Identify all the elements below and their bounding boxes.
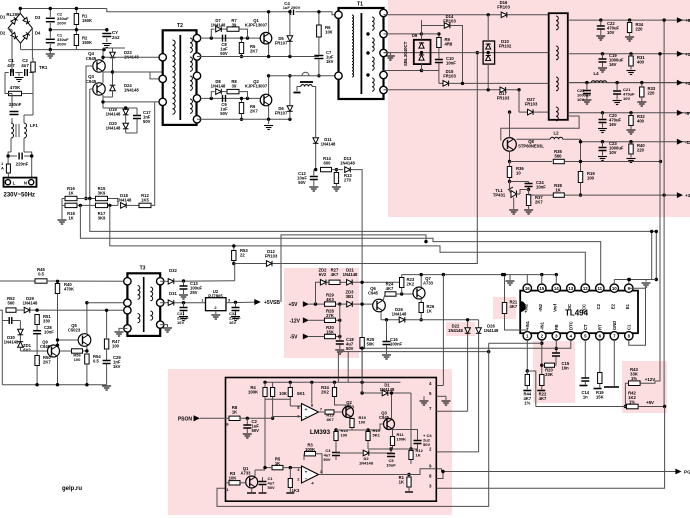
junction dots input [19,7,22,10]
resistor R50 2K7 [35,356,39,366]
wire mains top rail [20,8,107,10]
svg-text:−: − [305,414,308,419]
wire choke out row2 +12V [568,53,690,55]
svg-text:−: − [305,477,308,482]
svg-text:D32: D32 [169,268,177,273]
wire secondary row1 [384,14,549,16]
wire standby bottom rail [2,384,106,386]
diode D19 1N4148 [123,109,129,115]
wire Q3 collector up [391,393,393,419]
output choke block [549,13,568,120]
thermistor TR1 [32,58,34,62]
wire Q6 emitter row [380,312,382,320]
wire pin3 to +5V rail [436,407,664,488]
svg-text:A: A [1,166,4,171]
svg-text:+3.3: +3.3 [685,193,690,198]
svg-text:OC: OC [567,304,572,310]
svg-text:C1: C1 [626,324,631,330]
svg-text:PSON: PSON [178,416,193,422]
diode D4 bridge [23,32,30,39]
svg-text:R224K7: R224K7 [539,392,547,402]
svg-text:11: 11 [597,286,602,291]
T2 secondary windings [190,38,192,52]
capacitor CY 2n2 [106,30,108,32]
svg-text:L: L [13,180,16,185]
wire Q2 emitter rail [268,106,270,120]
AC inlet terminals L N [4,178,37,187]
svg-text:GND: GND [612,321,617,330]
rectifier D10 FR102 [483,41,495,64]
svg-text:ZD33B1: ZD33B1 [346,290,355,300]
resistor R37 2K7 [526,195,530,206]
diode D24 1N4148 [110,85,116,91]
highlight region -5V/-12V network [284,268,359,358]
wire pin1 bottom loop [217,343,489,506]
wire pin1 down [526,340,528,371]
input arrow -12V [303,317,309,323]
wire secondary row4 [384,70,422,72]
svg-text:R51K: R51K [275,457,281,467]
ground between X caps [18,73,20,77]
svg-text:R35560: R35560 [554,149,562,159]
svg-text:-5V: -5V [290,335,298,341]
svg-text:+3.3V: +3.3V [685,81,690,86]
diode D1 bridge [11,17,18,24]
T1 primary winding [352,15,354,77]
svg-text:+12V: +12V [685,52,690,57]
ground T3 right bottom [160,325,167,327]
wire divider rows [77,198,96,200]
capacitor 330nF [11,94,13,109]
svg-text:R214K7: R214K7 [510,300,518,310]
capacitor C9 1uF 50V [223,95,226,102]
input arrow -5V [303,334,309,340]
svg-text:13: 13 [568,286,573,291]
T1 secondary windings [372,17,374,30]
wire Q8 source [509,151,511,161]
box second rail [265,398,290,400]
ground pin5 pair [423,396,425,400]
diode D20 1N4148 [123,123,129,129]
wire comp A output [319,411,325,413]
svg-text:R14600: R14600 [323,156,331,166]
wire Q4 base down [86,66,93,199]
wire LF1 to inlet [10,138,12,152]
svg-text:+5V: +5V [685,18,690,23]
input arrow +5V [303,301,309,307]
subcircuit box LM393 [226,378,437,502]
svg-text:R2550K: R2550K [367,337,375,347]
capacitor C4 1uF 250V [291,10,294,16]
svg-text:T3: T3 [140,266,146,272]
svg-text:D31: D31 [169,291,177,296]
wire pin4 DTC line [362,340,571,348]
current transformer secondary [301,85,312,87]
capacitor 220nF [19,153,22,160]
resistor R33 220 [640,81,643,84]
resistor R36 10 [507,167,511,178]
svg-text:R274K7: R274K7 [331,268,339,278]
wire standby aux rail riser [234,264,236,281]
capacitor C10 10nF [438,48,440,60]
svg-text:R244K7: R244K7 [386,282,394,292]
svg-text:VCC: VCC [581,304,586,313]
svg-text:FB: FB [554,324,559,330]
svg-text:E1: E1 [625,303,630,309]
resistor R31 400 [629,52,632,55]
wire comp A inputs [290,405,301,407]
svg-text:+5V: +5V [646,400,654,405]
output arrow +3.3VS [677,192,683,198]
capacitor C32 220uF 16V [234,301,237,304]
svg-text:Vref: Vref [552,303,557,312]
svg-text:5K1: 5K1 [297,391,305,396]
resistor R9 4R8 [437,38,441,48]
ground T3 left bottom [119,328,127,331]
svg-text:R155K1: R155K1 [373,428,381,437]
svg-text:R294K3: R294K3 [326,293,334,303]
svg-text:C171nF50V: C171nF50V [143,110,151,124]
svg-text:R372K7: R372K7 [535,195,543,205]
IC TL494 body [520,291,638,334]
wire base drive bottom [103,107,137,109]
wire PG output [436,469,441,472]
right rail +5V vertical [663,20,665,406]
capacitor C23 1000uF 10V [601,140,604,143]
right rail +12V vertical [659,54,661,381]
output arrow -12V [677,139,683,145]
resistor R7 39 [227,27,239,31]
wire choke out row3 +3.3V [568,82,690,84]
svg-text:+5V: +5V [288,302,298,308]
bus B3 [110,205,586,284]
ground pin7 GND [613,340,615,386]
wire Q1 emitter rail [268,44,270,57]
box top rail [265,381,401,383]
wire R21 to pin1 [505,314,528,332]
filter inductor LF1 [11,123,14,138]
fuse F1 [6,164,10,173]
wire comp B out to pins [341,469,436,475]
diode D2 bridge [11,32,18,39]
svg-text:230V~50Hz: 230V~50Hz [4,192,36,198]
ground rail stub TL494 left [509,275,511,280]
svg-text:T2: T2 [177,23,183,29]
resistor R18 1K [65,203,77,207]
wire pins 15 16 to rail [526,275,528,284]
wire choke to Q8 gate [501,116,579,141]
resistor R6 2K7 [239,103,243,114]
wire B1 to E bracket [651,231,653,279]
svg-text:gelp.ru: gelp.ru [62,486,82,492]
capacitor C14 1n [584,340,586,378]
wires inside box top [264,382,266,387]
wire Q5 base [58,339,79,341]
bus B2b from 5VSB [281,235,426,302]
svg-text:TR1: TR1 [39,65,48,70]
wire latch line [348,352,489,378]
wire pin8 C1 [629,288,646,345]
wire R43/R42 left column [625,383,628,406]
bridge rectifier RL205 [8,13,32,43]
wire DTC to box top [361,348,363,377]
svg-text:+12V: +12V [645,377,655,382]
resistor R40 220 [629,140,632,143]
wire C4 to T1 [296,12,339,15]
resistor R56 100 [72,349,83,353]
svg-text:R81K: R81K [232,405,238,415]
svg-text:T1: T1 [357,2,363,8]
wire D12 to Q8 riser [272,53,477,264]
diode D7 1N4148 [211,29,214,38]
wire standby HV rail [0,280,35,282]
wire +5V row [309,303,320,305]
svg-text:LF1: LF1 [30,123,38,128]
svg-text:RL205: RL205 [6,12,20,17]
svg-text:R121K5: R121K5 [141,193,149,203]
capacitor C21 470uF 10V [615,81,618,84]
resistor R19 15K [599,340,601,372]
wire divider left node [62,198,65,200]
wire standby left rail [0,310,2,385]
svg-text:+: + [305,470,308,475]
wire box entries to rail [337,378,339,383]
wire bridge top stub [19,9,21,14]
capacitor C31 220uF 16V [182,301,185,304]
svg-text:C2: C2 [596,303,601,309]
svg-text:CT: CT [583,324,588,330]
wire U2 out [226,301,260,304]
output arrow PG [675,469,681,475]
svg-text:1uF 250V: 1uF 250V [283,5,301,10]
wire bridge bottom stub [20,43,22,49]
svg-text:RT: RT [597,324,602,330]
wire choke out row4 -5V [568,112,690,114]
current transformer core bar [302,72,309,76]
wire Q7 collector rail [420,275,422,288]
transistor Q1 KJPF13007 [260,32,272,44]
svg-text:R153K9: R153K9 [98,186,106,196]
capacitor C29 1nF 1kV [106,349,108,360]
resistor 1K3 [288,479,292,488]
T1 secondary taps [366,32,369,35]
highlight region R21 [493,297,516,319]
resistor R1 150K [75,9,77,14]
svg-text:+5VSB: +5VSB [264,300,280,306]
resistor R54 0.5 [85,354,89,364]
diode D23 1N4148 [110,52,116,58]
wire top rail to C4 [107,9,289,12]
svg-text:-5V: -5V [685,111,690,116]
wire E1 E2 bracket [613,280,615,285]
capacitor C28 10nF [36,325,38,331]
wire pin3 FB [555,348,557,350]
wire CT to D11 [312,87,316,138]
ground Q2 emitter [268,119,270,124]
svg-text:PG: PG [684,470,690,475]
svg-text:D3: D3 [35,15,41,20]
svg-text:L4: L4 [593,71,599,76]
svg-text:C184u750V: C184u750V [346,337,354,351]
svg-text:SBL3040CT: SBL3040CT [403,41,408,66]
capacitor C19 1000uF 16V [601,52,604,55]
wire P2 right column [339,304,341,340]
svg-text:1K3: 1K3 [292,488,300,493]
wire D13 to DTC vertical [351,170,362,377]
wire Q7 emitter [420,299,422,303]
wire T2 pin4 row [200,97,260,99]
output row5 -12V [581,141,690,143]
svg-text:R52560: R52560 [7,296,15,306]
wire Q5 collector rail to T3 [87,302,128,304]
svg-text:LM393: LM393 [310,429,331,436]
wire mid row [368,448,418,450]
output arrow +12V [677,51,683,57]
wire bridge bottom rail [21,49,105,51]
T2 pins [159,54,166,61]
ground TL1 [513,198,515,210]
wire Q1 collector [254,470,256,477]
wire Q3 base [351,428,353,431]
EMI filter column left rail [8,28,12,66]
svg-text:220nF: 220nF [16,162,29,167]
wire D1 out down to R12 [410,393,412,451]
diode D8 1N4148 [211,92,214,99]
svg-text:+IN1: +IN1 [525,320,530,330]
T3 pins [124,278,131,285]
resistor R47 100 [104,339,108,349]
svg-text:R1915K: R1915K [596,390,604,400]
svg-text:10: 10 [612,286,617,291]
wire TL1 cathode [517,193,521,195]
wire pin1 to +5V sense [527,371,536,407]
capacitor C7 1uF 1kV [318,37,320,55]
wire Q3 emitter [393,430,418,441]
resistor 10K [271,388,275,397]
wire choke out row1 +5V [568,19,690,21]
svg-text:R56100: R56100 [73,353,81,362]
wire R12 up to T2 drive [151,102,155,205]
svg-text:C1510n: C1510n [562,361,570,371]
wire Q8 drain [509,112,511,138]
resistor R34 220 [628,18,631,21]
resistor R32 400 [629,111,632,114]
svg-text:-12V: -12V [685,140,690,145]
svg-text:16: 16 [525,286,530,291]
wire row5 to D27 [518,90,520,112]
wire left rail down [5,73,8,94]
svg-text:+: + [305,407,308,412]
svg-text:-12V: -12V [289,318,300,324]
wire pin2 down [541,340,543,375]
svg-text:-IN1: -IN1 [539,321,544,330]
svg-text:+IN2: +IN2 [523,303,528,313]
output arrow -5V [677,110,683,116]
wire R43 +12V [640,381,660,383]
svg-text:D2: D2 [0,30,6,35]
wire Q3 to T2 bottom pin [103,101,163,103]
capacitor C13 100uF 25V [182,279,185,282]
output arrow +3.3V [677,80,683,86]
svg-text:ZD26V2: ZD26V2 [319,268,328,278]
svg-text:DTC: DTC [568,321,573,330]
svg-text:-IN2: -IN2 [538,303,543,312]
T1 pins [335,11,342,18]
wire Q4 to T2 pin [103,56,163,58]
resistor R19 100 [578,172,582,183]
wire secondary row3 [384,52,549,54]
capacitor C2 330uF 200V [49,9,51,18]
resistor 470K [9,91,22,95]
diode D11 1N4148 [313,138,319,144]
output arrow +5VSB [254,299,260,305]
capacitor C1 330uF 200V [49,30,51,38]
svg-text:R342K2: R342K2 [321,385,329,395]
wire -IN1 to comparator [489,342,542,344]
svg-text:R232K2: R232K2 [407,277,415,287]
svg-text:14: 14 [554,286,559,291]
wire box bottom grounds [251,488,253,492]
capacitor C8 1uF 50V [223,35,226,42]
svg-text:R3015K: R3015K [326,325,334,335]
wire third box entry [337,352,339,378]
highlight region D22 [446,322,475,336]
capacitor C20 470uF 16V [601,111,604,114]
resistor R5 2K7 [239,43,243,54]
svg-text:R502K7: R502K7 [43,355,51,365]
resistor R17 3K9 [96,203,108,207]
diode D3 bridge [23,17,30,24]
svg-text:15: 15 [539,286,544,291]
wire R10 R15 row [336,429,368,431]
wire Q2 collector [268,76,270,95]
resistor R8 39 [227,89,239,93]
svg-text:L2: L2 [553,131,559,136]
wire T2 pin1 row [200,37,260,39]
TL494 bottom pins 1-8 [523,332,531,340]
wire D-column to T2 mid pin [150,72,163,79]
wire secondary row2 [384,33,422,35]
bus B1 [90,199,657,232]
wire pin2 row [436,451,478,453]
TL494 top pins 16-9 [523,284,531,292]
resistor R13 270 [334,173,338,184]
svg-text:10K: 10K [279,391,287,396]
svg-text:470K: 470K [10,85,21,90]
resistor R51 330 [35,315,39,325]
svg-text:R2033K: R2033K [545,368,553,378]
wires Q4 collector to T2 [103,47,113,49]
resistor R40 470K [55,284,59,294]
wire Q2 collector [335,403,351,407]
svg-text:D9: D9 [412,33,418,38]
resistor R2 150K [75,30,77,34]
svg-text:12: 12 [583,286,588,291]
T2 primary winding [173,40,176,114]
wire Q1 collector [268,12,270,33]
wire secondary row5 [384,89,520,91]
highlight region R20/C15 [533,341,575,403]
wire Q5 collector [86,303,88,334]
wire B1 right leg [655,231,657,279]
resistor R6 100 T1 damper [318,12,320,25]
highlight region output rectifier/filter [388,0,690,217]
capacitor C24 10nF [528,182,530,184]
svg-text:R11K: R11K [399,475,405,485]
svg-text:R173K9: R173K9 [98,211,106,221]
resistor 5K1 [288,388,292,397]
wire Q5 emitter [86,346,88,351]
